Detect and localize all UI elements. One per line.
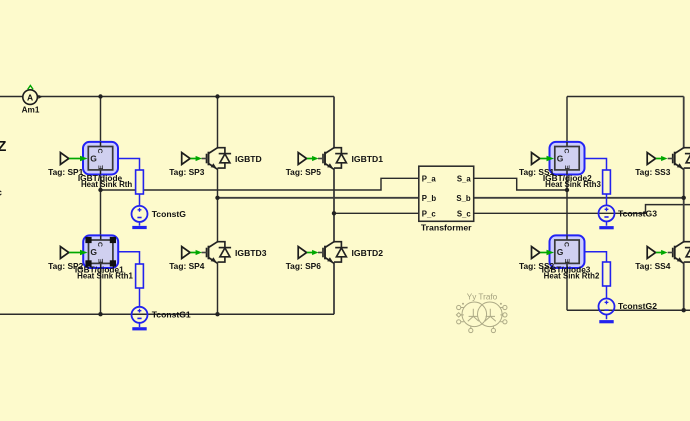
tag SS1	[519, 153, 555, 178]
thermal ground (TconstG2)	[599, 320, 613, 323]
temperature source TconstG3	[599, 205, 658, 221]
svg-text:IGBTD2: IGBTD2	[352, 248, 384, 258]
IGBT/diode1 module with Heat Sink Rth1 (U2, selected)	[75, 235, 134, 280]
node: right bottom rail / leg2 junction	[682, 308, 686, 312]
svg-text:Yy Trafo: Yy Trafo	[467, 293, 498, 302]
wire: right DC+ top rail	[567, 96, 684, 98]
thermal wire U3 to Rth resistor	[585, 159, 607, 226]
wire: left bridge leg 2 (x=217.5)	[217, 97, 219, 315]
tag SS4	[635, 247, 671, 271]
node: bottom rail / leg2 junction	[215, 312, 219, 316]
node: phase B tap	[215, 196, 219, 200]
svg-text:A: A	[27, 92, 33, 102]
svg-text:Tag: SP1: Tag: SP1	[48, 167, 84, 177]
wire: right bridge leg 2 (x=683.7)	[683, 97, 685, 311]
thermal resistor Rth chain 3	[603, 170, 611, 194]
transistor IGBTD	[202, 148, 262, 170]
wire: transformer S_a to right leg 1	[474, 178, 567, 190]
svg-text:TconstG2: TconstG2	[618, 301, 657, 311]
wire: phase B to transformer P_b	[218, 197, 419, 199]
svg-text:Tag: SS3: Tag: SS3	[635, 167, 671, 177]
transformer block	[419, 166, 474, 233]
tag SS2	[519, 247, 555, 271]
wire: left DC- bottom rail	[0, 313, 334, 315]
tag SP2	[48, 247, 88, 271]
svg-text:S_a: S_a	[457, 174, 472, 183]
node: top rail / leg2 junction	[215, 94, 219, 98]
tag SS3	[635, 153, 671, 178]
transistor SS4 leg IGBT (right edge)	[668, 242, 690, 264]
svg-text:Heat Sink Rth2: Heat Sink Rth2	[544, 271, 600, 280]
thermal resistor Rth chain 2	[136, 264, 144, 288]
tag SP5	[286, 153, 322, 178]
node: bottom rail / leg1 junction	[98, 312, 102, 316]
transistor IGBTD3	[202, 242, 267, 264]
thermal resistor Rth1 chain	[136, 170, 144, 194]
temperature source TconstG2	[599, 299, 658, 315]
transistor IGBTD2	[318, 242, 383, 264]
thermal wire U1 to Rth resistor	[118, 159, 140, 226]
temperature source TconstG1	[132, 307, 191, 323]
svg-text:Am1: Am1	[22, 106, 40, 115]
tag SP4	[169, 247, 205, 271]
IGBT/diode2 module with Heat Sink Rth3 (U3)	[543, 142, 602, 189]
svg-text:Tag: SP3: Tag: SP3	[169, 167, 205, 177]
node: phase C tap	[332, 211, 336, 215]
svg-text:S_b: S_b	[456, 194, 471, 203]
transistor IGBTD1	[318, 148, 383, 170]
thermal ground (TconstG3)	[599, 226, 613, 229]
wire: transformer S_b to right leg 2	[474, 197, 684, 199]
thermal resistor Rth chain 4	[603, 262, 611, 286]
wire: right DC- bottom rail	[567, 309, 690, 311]
IGBT/diode3 module with Heat Sink Rth2 (U4)	[542, 235, 600, 280]
wire: left DC+ top rail	[0, 96, 334, 98]
svg-text:IGBTD1: IGBTD1	[352, 154, 384, 164]
svg-text:TconstG: TconstG	[152, 209, 187, 219]
node: phase A tap	[98, 188, 102, 192]
svg-text:Heat Sink Rth3: Heat Sink Rth3	[545, 180, 601, 189]
svg-text:Transformer: Transformer	[421, 223, 472, 233]
wire: phase C to transformer P_c	[334, 212, 419, 214]
svg-text:P_a: P_a	[422, 174, 437, 183]
svg-text:P_b: P_b	[422, 194, 437, 203]
wire: phase A to transformer P_a	[101, 178, 419, 190]
thermal wire U2 to Rth resistor	[118, 252, 140, 327]
node: top rail / leg1 junction	[98, 94, 102, 98]
wire: transformer S_c to right edge	[474, 205, 690, 214]
svg-text:S_c: S_c	[457, 209, 472, 218]
svg-text:Z: Z	[0, 139, 7, 155]
thermal wire U4 to Rth resistor	[585, 252, 607, 320]
svg-text:P_c: P_c	[422, 209, 437, 218]
svg-text:Tag: SP2: Tag: SP2	[48, 261, 84, 271]
node: S_b tap on right leg 2	[682, 196, 686, 200]
wire: left bridge leg 3 (x=334)	[333, 97, 335, 315]
Yy Trafo watermark	[456, 293, 507, 333]
wire: left bridge leg 1 (x=100.5)	[100, 97, 102, 315]
svg-text:c: c	[0, 188, 2, 198]
svg-text:Heat Sink Rth1: Heat Sink Rth1	[77, 271, 133, 280]
thermal ground (TconstG)	[132, 226, 146, 229]
svg-text:IGBTD3: IGBTD3	[235, 248, 267, 258]
svg-text:Tag: SS4: Tag: SS4	[635, 261, 671, 271]
wire: right bridge leg 1 (x=567)	[566, 97, 568, 311]
svg-text:Heat Sink Rth: Heat Sink Rth	[81, 180, 132, 189]
tag SP1	[48, 153, 88, 178]
svg-text:TconstG3: TconstG3	[618, 209, 657, 219]
tag SP6	[286, 247, 322, 271]
svg-text:IGBTD: IGBTD	[235, 154, 262, 164]
svg-text:Tag: SS1: Tag: SS1	[519, 167, 555, 177]
temperature source TconstG	[132, 206, 187, 222]
thermal ground (TconstG1)	[132, 327, 146, 330]
svg-text:Tag: SP6: Tag: SP6	[286, 261, 322, 271]
svg-text:Tag: SS2: Tag: SS2	[519, 261, 555, 271]
svg-text:Tag: SP4: Tag: SP4	[169, 261, 205, 271]
transistor SS3 leg IGBT (right edge)	[668, 148, 690, 170]
node: S_a tap on right leg 1	[565, 188, 569, 192]
svg-text:Tag: SP5: Tag: SP5	[286, 167, 322, 177]
tag SP3	[169, 153, 205, 178]
svg-text:TconstG1: TconstG1	[152, 309, 191, 319]
ammeter Am1	[22, 86, 43, 115]
IGBT/diode module with Heat Sink Rth (U1)	[78, 142, 133, 189]
